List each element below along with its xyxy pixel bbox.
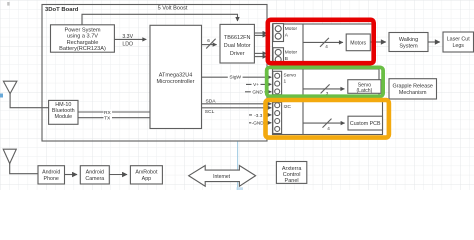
svg-text:System: System [399,44,418,50]
svg-text:(Latch): (Latch) [356,88,372,94]
label RX TX [104,109,113,116]
svg-text:3DoT Board: 3DoT Board [45,7,79,13]
block Walking System [389,33,428,52]
wire bus 6: ATmega32U4 to TB6612FN [202,44,217,46]
wire TB6612FN to Motor A pin2 [254,34,266,36]
wire TB6612FN to Motor B pin2 [254,56,266,58]
wire bus 4: motor connectors to Motors [303,41,343,43]
wire bus 4: I2C connector to Custom PCB [303,122,345,124]
svg-text:Internet: Internet [213,174,231,180]
wire 3.3V LDO: power system to ATmega32U4 [114,38,146,40]
wire TX: HM-10 to ATmega32U4 [78,117,150,119]
antenna ANT2 [3,149,16,163]
svg-text:using a 3.7V: using a 3.7V [67,34,98,40]
svg-text:SigW: SigW [229,74,241,80]
svg-text:Power System: Power System [64,27,100,33]
block ArxRobot App [130,166,162,184]
svg-text:Grapple Release: Grapple Release [392,84,432,90]
label GND i2c [251,120,264,126]
label 3.3 i2c [252,112,264,118]
wire V+ to Servo connector [246,83,271,85]
block Android Phone [38,166,65,184]
annotation green box: servo section [267,67,383,96]
svg-text:1: 1 [284,79,287,85]
wire GND to I2C connector [249,122,271,124]
svg-text:ATmega32U4: ATmega32U4 [159,73,193,79]
svg-text:RX: RX [104,110,112,116]
background grid [0,0,474,190]
wire SCL: ATmega32U4 to I2C connector [202,107,272,109]
block Motors [346,34,370,51]
label V+ [252,82,261,88]
servo group divider [302,69,304,96]
connector I2C J4 [273,102,282,133]
svg-text:LDO: LDO [122,42,133,48]
servo group box [273,69,380,96]
wire SigW: ATmega32U4 to Servo connector [202,76,272,78]
svg-text:SCL: SCL [205,109,215,115]
svg-text:Driver: Driver [230,51,245,57]
svg-text:App: App [142,176,151,182]
connector Motor B J2 [273,48,284,63]
block Arxterra Control Panel [276,162,306,184]
wire SDA: ATmega32U4 to I2C connector [202,103,272,105]
svg-text:Motor: Motor [285,26,298,32]
svg-text:Rechargable: Rechargable [67,40,99,46]
svg-text:4: 4 [327,126,330,131]
svg-text:Custom PCB: Custom PCB [350,121,381,127]
svg-text:-GND: -GND [252,121,265,126]
wire bus 3: servo connector to Servo Latch [303,88,344,90]
svg-text:ArxRobot: ArxRobot [135,170,158,176]
svg-text:Dual Motor: Dual Motor [224,43,251,49]
annotation orange box: i2c section [266,100,389,138]
3DoT Board container [42,5,267,142]
svg-text:I2C: I2C [284,104,292,110]
svg-text:3.3V: 3.3V [122,34,133,40]
annotation red box: motor section [268,20,374,63]
bus slash 6 [206,39,215,49]
wire 5 Volt Boost: power system to TB6612FN [82,14,238,24]
block ATmega32U4 Microcontroller U1 [150,25,202,128]
wire GND to Servo connector [245,91,271,93]
wire TB6612FN to Motor A pin1 [254,32,266,34]
bus slash 4 i2c [323,119,332,128]
bus slash 3 servo [321,84,330,93]
i2c group box [273,101,383,135]
svg-text:5 Volt Boost: 5 Volt Boost [158,6,188,12]
wire Motors to Walking System [370,41,386,43]
block Servo (Latch) [348,80,381,94]
svg-text:6: 6 [207,38,210,43]
svg-text:Walking: Walking [399,37,418,43]
svg-text:Module: Module [54,114,72,120]
wire RX: HM-10 to ATmega32U4 [78,111,150,113]
wire Walking System to Laser Cut Legs [428,41,440,43]
wire Android Camera to ArxRobot App [109,174,127,176]
block Laser Cut Legs [443,32,474,52]
blue cursor mark [0,94,3,98]
svg-text:Servo: Servo [284,72,297,78]
stray mark top-left [7,2,9,6]
i2c group divider [302,101,304,135]
svg-text:Camera: Camera [85,176,104,182]
svg-text:Laser Cut: Laser Cut [447,37,470,43]
block Android Camera [80,166,109,184]
svg-text:-3.3: -3.3 [254,113,262,118]
label GND servo [251,89,265,95]
block TB6612FN Dual Motor Driver U2 [220,24,254,63]
block Custom PCB [348,116,383,130]
bus slash 4 motors [320,38,329,47]
wire 3.3V to I2C connector [249,114,271,116]
connector Motor A J1 [273,24,284,42]
svg-text:Microcrontroller: Microcrontroller [157,79,195,85]
svg-text:4: 4 [325,44,328,49]
motor group box [273,24,373,62]
label SigW [228,73,243,81]
antenna ANT1 [3,81,17,93]
svg-text:Motor: Motor [285,50,298,56]
block HM-10 Bluetooth Module [49,100,78,124]
svg-text:Motors: Motors [350,40,366,46]
handle mark bottom [237,187,244,190]
svg-text:TX: TX [104,116,111,122]
svg-text:Panel: Panel [285,178,299,184]
wire TB6612FN to Motor B pin1 [254,52,266,54]
wire antenna2 to Android Phone [10,164,38,174]
svg-text:V+: V+ [253,82,259,87]
svg-text:SDA: SDA [206,99,217,105]
svg-text:GND: GND [252,90,263,95]
svg-text:Mechanism: Mechanism [399,90,427,96]
block Grapple Release Mechanism [389,79,437,99]
wire antenna to HM-10 [10,94,49,108]
svg-text:Legs: Legs [452,43,464,49]
svg-text:Android: Android [42,170,60,176]
svg-text:Android: Android [86,170,104,176]
svg-text:TB6612FN: TB6612FN [224,35,251,41]
connector Servo 1 J3 [273,71,282,94]
internet double arrow [189,166,256,187]
block Power System [51,25,115,52]
wire Android Phone to Android Camera [65,174,78,176]
guide line vertical blue [237,142,239,191]
svg-text:Phone: Phone [44,176,59,182]
motor group divider [302,24,304,62]
svg-text:Battery(RCR123A): Battery(RCR123A) [59,46,106,52]
